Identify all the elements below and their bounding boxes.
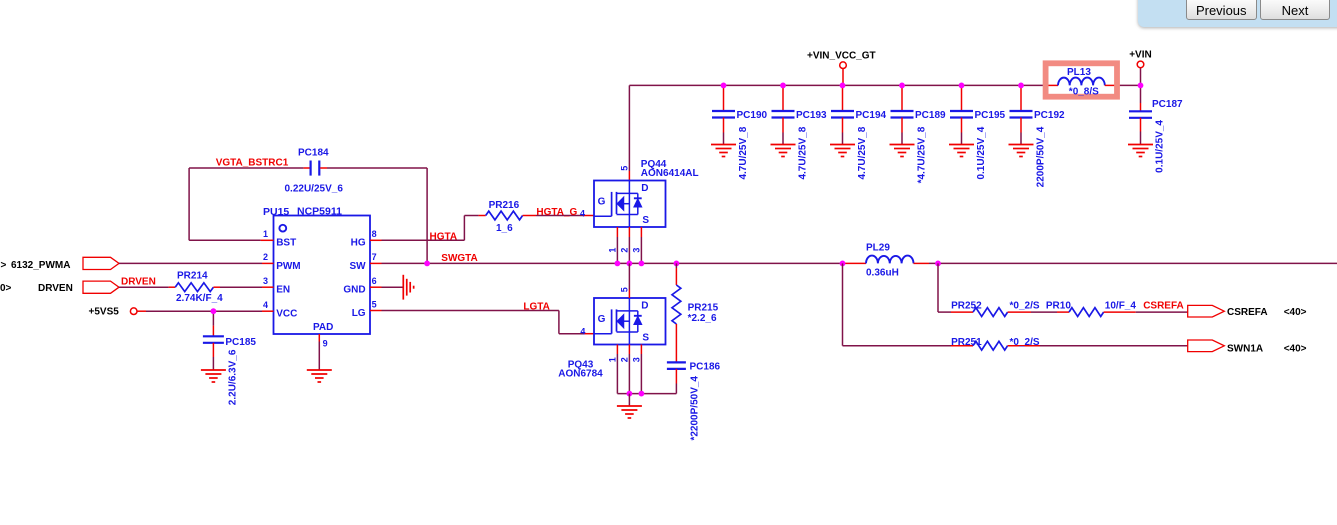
svg-text:4.7U/25V_8: 4.7U/25V_8	[738, 126, 749, 179]
svg-text:3: 3	[263, 276, 268, 286]
svg-text:PWM: PWM	[276, 261, 300, 272]
svg-text:7: 7	[372, 252, 377, 262]
svg-text:PC192: PC192	[1034, 110, 1065, 121]
svg-text:HGTA_G: HGTA_G	[536, 207, 577, 218]
svg-text:+VIN_VCC_GT: +VIN_VCC_GT	[807, 50, 876, 61]
svg-text:PC194: PC194	[856, 110, 887, 121]
svg-text:PR251: PR251	[951, 337, 982, 348]
svg-text:VGTA_BSTRC1: VGTA_BSTRC1	[216, 158, 289, 169]
svg-text:6: 6	[372, 276, 377, 286]
svg-text:DRVEN: DRVEN	[121, 276, 156, 287]
svg-text:CSREFA: CSREFA	[1143, 301, 1184, 312]
svg-text:PU15: PU15	[263, 206, 289, 218]
svg-text:DRVEN: DRVEN	[38, 283, 73, 294]
svg-text:1_6: 1_6	[496, 223, 513, 234]
svg-text:HG: HG	[351, 238, 366, 249]
svg-text:1: 1	[608, 248, 618, 253]
svg-text:*0_2/S: *0_2/S	[1010, 337, 1040, 348]
svg-text:PR214: PR214	[177, 270, 208, 281]
svg-text:SW: SW	[349, 261, 366, 272]
svg-text:GND: GND	[343, 285, 365, 296]
svg-text:AON6784: AON6784	[558, 368, 603, 379]
svg-text:PC190: PC190	[737, 110, 768, 121]
svg-text:2: 2	[263, 252, 268, 262]
svg-text:G: G	[598, 314, 606, 325]
svg-text:2.2U/6.3V_6: 2.2U/6.3V_6	[228, 349, 239, 405]
svg-text:4: 4	[263, 300, 268, 310]
svg-text:>: >	[1, 260, 7, 271]
svg-text:PC184: PC184	[298, 148, 329, 159]
svg-text:CSREFA: CSREFA	[1227, 307, 1268, 318]
svg-text:PR216: PR216	[489, 200, 520, 211]
svg-text:4.7U/25V_8: 4.7U/25V_8	[857, 126, 868, 179]
svg-text:*0_2/S: *0_2/S	[1010, 300, 1040, 311]
svg-text:S: S	[642, 215, 649, 226]
svg-text:NCP5911: NCP5911	[297, 206, 342, 218]
svg-text:G: G	[598, 196, 606, 207]
svg-text:<40>: <40>	[1284, 343, 1307, 354]
svg-text:*4.7U/25V_8: *4.7U/25V_8	[917, 126, 928, 183]
svg-text:0>: 0>	[0, 283, 12, 294]
svg-text:0.36uH: 0.36uH	[866, 267, 899, 278]
svg-text:4: 4	[580, 209, 585, 219]
svg-text:*2200P/50V_4: *2200P/50V_4	[689, 376, 700, 441]
svg-text:6132_PWMA: 6132_PWMA	[11, 260, 70, 271]
svg-text:*0_8/S: *0_8/S	[1069, 87, 1099, 98]
svg-text:AON6414AL: AON6414AL	[641, 168, 699, 179]
svg-text:BST: BST	[276, 238, 296, 249]
svg-text:2: 2	[620, 357, 630, 362]
svg-text:0.1U/25V_4: 0.1U/25V_4	[976, 126, 987, 179]
svg-text:S: S	[642, 332, 649, 343]
svg-text:PR10: PR10	[1046, 300, 1071, 311]
svg-text:+5VS5: +5VS5	[89, 306, 120, 317]
svg-text:+VIN: +VIN	[1129, 50, 1152, 61]
svg-text:8: 8	[372, 229, 377, 239]
svg-text:4: 4	[580, 327, 585, 337]
svg-text:3: 3	[632, 357, 642, 362]
svg-text:PC186: PC186	[690, 362, 721, 373]
svg-text:5: 5	[620, 287, 630, 292]
svg-text:SWGTA: SWGTA	[441, 253, 477, 264]
svg-text:5: 5	[372, 299, 377, 309]
svg-text:PC185: PC185	[225, 337, 256, 348]
svg-text:PC193: PC193	[796, 110, 827, 121]
svg-text:LGTA: LGTA	[523, 301, 549, 312]
svg-text:1: 1	[608, 357, 618, 362]
svg-text:0.1U/25V_4: 0.1U/25V_4	[1155, 120, 1166, 173]
svg-text:PL29: PL29	[866, 243, 890, 254]
svg-text:3: 3	[632, 248, 642, 253]
svg-text:SWN1A: SWN1A	[1227, 343, 1263, 354]
svg-text:*2.2_6: *2.2_6	[688, 313, 717, 324]
svg-text:PC195: PC195	[975, 110, 1006, 121]
svg-text:PAD: PAD	[313, 322, 333, 333]
svg-text:HGTA: HGTA	[430, 231, 458, 242]
svg-text:4.7U/25V_8: 4.7U/25V_8	[798, 126, 809, 179]
svg-text:2: 2	[620, 248, 630, 253]
svg-text:9: 9	[323, 339, 328, 349]
svg-text:D: D	[641, 183, 648, 194]
svg-text:1: 1	[263, 229, 268, 239]
svg-text:<40>: <40>	[1284, 307, 1307, 318]
svg-text:EN: EN	[276, 285, 290, 296]
svg-text:VCC: VCC	[276, 309, 297, 320]
svg-text:PR252: PR252	[951, 300, 982, 311]
svg-text:D: D	[641, 301, 648, 312]
svg-text:PL13: PL13	[1067, 67, 1091, 78]
svg-text:PC189: PC189	[915, 110, 946, 121]
svg-text:10/F_4: 10/F_4	[1105, 300, 1137, 311]
svg-text:2.74K/F_4: 2.74K/F_4	[176, 293, 223, 304]
svg-text:2200P/50V_4: 2200P/50V_4	[1036, 126, 1047, 187]
svg-text:0.22U/25V_6: 0.22U/25V_6	[285, 183, 344, 194]
svg-text:LG: LG	[352, 308, 366, 319]
svg-text:5: 5	[620, 166, 630, 171]
svg-text:PC187: PC187	[1152, 99, 1183, 110]
